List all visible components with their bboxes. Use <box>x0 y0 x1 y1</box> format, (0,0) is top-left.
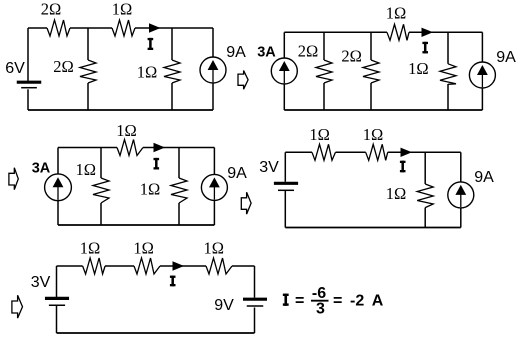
svg-text:=: = <box>333 293 342 310</box>
svg-text:1Ω: 1Ω <box>76 160 97 179</box>
svg-text:3V: 3V <box>31 274 51 291</box>
svg-text:6V: 6V <box>5 60 25 77</box>
svg-text:3A: 3A <box>32 161 51 177</box>
svg-text:2Ω: 2Ω <box>41 0 62 19</box>
svg-text:9A: 9A <box>474 169 494 186</box>
svg-text:A: A <box>372 293 384 310</box>
svg-text:1Ω: 1Ω <box>363 125 384 144</box>
svg-text:1Ω: 1Ω <box>386 184 407 203</box>
svg-text:9V: 9V <box>214 297 234 314</box>
svg-text:1Ω: 1Ω <box>204 239 225 258</box>
svg-text:1Ω: 1Ω <box>386 4 407 23</box>
svg-text:3V: 3V <box>259 159 279 176</box>
svg-text:-6: -6 <box>312 285 326 302</box>
svg-text:=: = <box>295 293 304 310</box>
svg-text:3: 3 <box>316 301 325 318</box>
svg-text:1Ω: 1Ω <box>408 59 429 78</box>
svg-text:2Ω: 2Ω <box>53 57 74 76</box>
svg-text:1Ω: 1Ω <box>309 125 330 144</box>
svg-text:9A: 9A <box>226 44 246 61</box>
svg-text:1Ω: 1Ω <box>112 0 133 19</box>
svg-text:9A: 9A <box>496 49 516 66</box>
svg-text:1Ω: 1Ω <box>116 121 137 140</box>
svg-text:1Ω: 1Ω <box>80 239 101 258</box>
svg-text:1Ω: 1Ω <box>133 239 154 258</box>
svg-text:1Ω: 1Ω <box>137 62 158 81</box>
svg-text:9A: 9A <box>227 165 247 182</box>
svg-text:2Ω: 2Ω <box>341 47 362 66</box>
svg-text:2Ω: 2Ω <box>298 41 319 60</box>
svg-text:3A: 3A <box>257 45 276 61</box>
svg-text:1Ω: 1Ω <box>140 180 161 199</box>
svg-text:-2: -2 <box>350 293 364 310</box>
